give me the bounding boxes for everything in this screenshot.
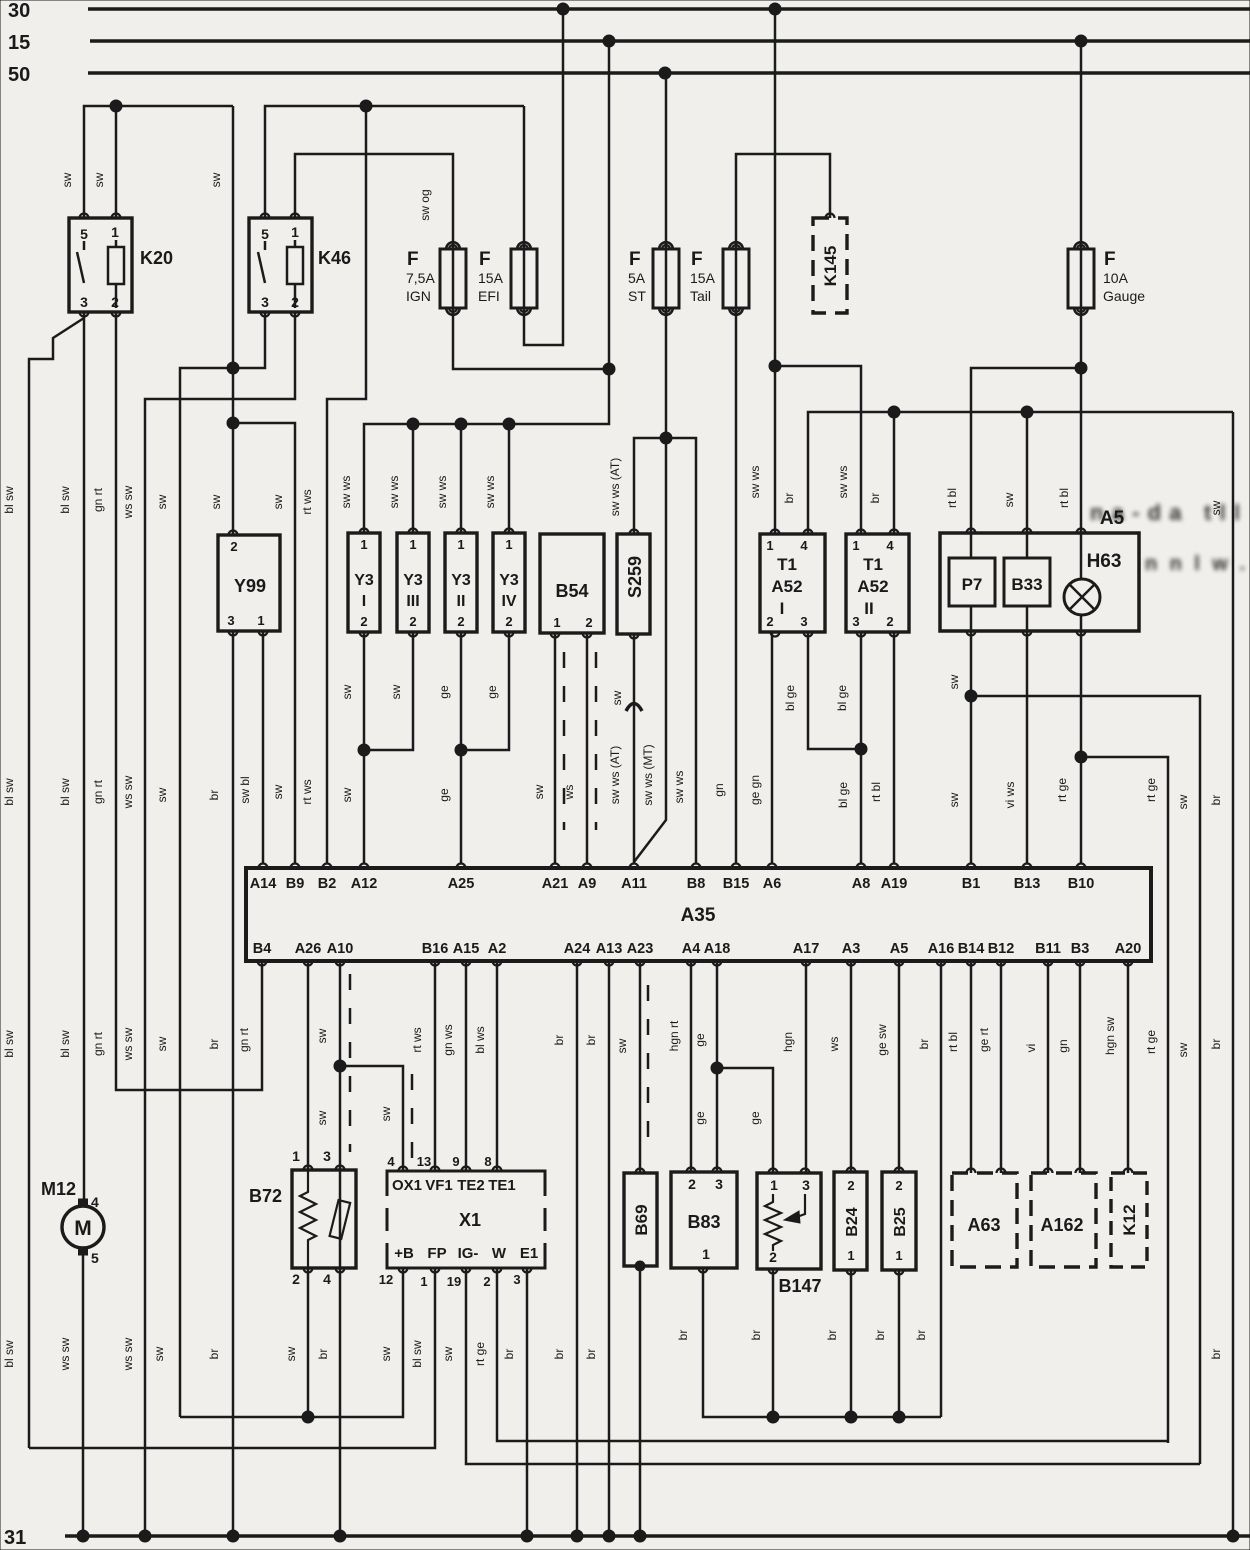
node Y3-IV (503, 418, 515, 430)
svg-text:gn ws: gn ws (441, 1024, 455, 1055)
pin A24 (573, 961, 582, 966)
wire A13 br to 31 (608, 961, 611, 1536)
node Y3-III (407, 418, 419, 430)
svg-text:A21: A21 (542, 876, 569, 892)
wire B3 to A162 (1079, 961, 1082, 1173)
node A8 join (855, 743, 867, 755)
relay K46 (249, 218, 312, 312)
sensor B69 (624, 1173, 657, 1266)
pin A21 (551, 864, 560, 869)
svg-text:OX1: OX1 (392, 1177, 422, 1194)
svg-text:ge sw: ge sw (875, 1024, 889, 1056)
node A25 join (455, 744, 467, 756)
svg-text:ge rt: ge rt (977, 1027, 991, 1052)
wire A15 to TE2 (465, 961, 468, 1171)
node IGN-15 (603, 363, 615, 375)
node T1-II pin4 (888, 406, 900, 418)
svg-text:br: br (207, 790, 221, 801)
svg-text:II: II (864, 599, 873, 618)
node br-31 (1227, 1530, 1239, 1542)
svg-text:br: br (782, 493, 796, 504)
svg-text:2: 2 (505, 614, 512, 629)
svg-text:2: 2 (292, 1271, 300, 1287)
svg-text:ws sw: ws sw (121, 1027, 135, 1061)
relay K145 (813, 218, 847, 313)
svg-text:bl sw: bl sw (2, 486, 16, 514)
pin A5 (895, 961, 904, 966)
svg-text:ge: ge (748, 1111, 762, 1125)
svg-text:5: 5 (91, 1250, 99, 1266)
pin A20 (1124, 961, 1133, 966)
svg-text:br: br (584, 1035, 598, 1046)
svg-text:2: 2 (688, 1176, 696, 1192)
svg-text:sw ws: sw ws (387, 476, 401, 509)
wire T1-II pin4 up (893, 412, 896, 534)
node K20 bus (110, 100, 122, 112)
node B25-1 gnd (893, 1411, 905, 1423)
injector Y3 III (Y3III) (397, 533, 429, 632)
module A162 (1031, 1173, 1096, 1267)
svg-text:ws: ws (562, 785, 576, 801)
svg-text:sw: sw (340, 787, 354, 802)
svg-text:4: 4 (800, 538, 808, 553)
pin A10 (336, 961, 345, 966)
svg-text:A16: A16 (928, 941, 955, 957)
node B147-2 gnd (767, 1411, 779, 1423)
node B72 +B (302, 1411, 314, 1423)
svg-text:2: 2 (847, 1178, 854, 1193)
svg-text:19: 19 (447, 1274, 461, 1289)
svg-text:br: br (1209, 795, 1223, 806)
solenoid Y99 (218, 535, 280, 631)
svg-text:A15: A15 (453, 941, 480, 957)
pin A12 (360, 864, 369, 869)
wiper arrow in B147 (794, 1194, 805, 1218)
svg-text:9: 9 (452, 1154, 459, 1169)
pin A4 (687, 961, 696, 966)
svg-text:B8: B8 (687, 876, 706, 892)
svg-text:1: 1 (457, 537, 464, 552)
svg-text:rt ws: rt ws (300, 779, 314, 804)
node Y3-II (455, 418, 467, 430)
svg-text:A10: A10 (327, 941, 354, 957)
svg-text:15A: 15A (690, 270, 716, 286)
wire H63 to B10 (1080, 631, 1083, 864)
ignition coil T1 A52 I (760, 534, 825, 632)
svg-text:sw ws: sw ws (836, 466, 850, 499)
svg-text:sw: sw (155, 1036, 169, 1051)
svg-text:8: 8 (484, 1154, 491, 1169)
svg-text:3: 3 (80, 294, 88, 310)
wire branch to P7 (971, 368, 1081, 534)
svg-text:1: 1 (420, 1274, 427, 1289)
svg-text:bl sw: bl sw (58, 778, 72, 806)
svg-text:sw: sw (271, 784, 285, 799)
svg-text:IGN: IGN (406, 288, 431, 304)
svg-text:B54: B54 (555, 581, 588, 601)
svg-text:sw: sw (155, 787, 169, 802)
node 15-1081 (1075, 35, 1087, 47)
svg-text:sw: sw (340, 684, 354, 699)
wire A3 to B24 (850, 961, 853, 1172)
wire Y3 IV pin2 join (461, 632, 509, 750)
wire fuse EFI from line 30 (524, 9, 563, 345)
wire branch to B8 (666, 438, 696, 864)
wire K46 pin2 to ws sw (145, 312, 295, 1536)
sensor B24 (834, 1172, 867, 1270)
svg-text:5A: 5A (628, 270, 646, 286)
svg-text:2: 2 (409, 614, 416, 629)
wire Y99 pin3 br to 31 (232, 631, 235, 1536)
svg-text:sw: sw (1002, 492, 1016, 507)
svg-text:W: W (492, 1245, 507, 1262)
wire br bus T1 pin4 (808, 412, 1233, 534)
svg-text:A162: A162 (1040, 1215, 1083, 1235)
svg-text:sw: sw (92, 172, 106, 187)
sensor B25 (882, 1172, 916, 1270)
svg-text:B11: B11 (1035, 941, 1061, 957)
svg-text:K46: K46 (318, 248, 351, 268)
svg-text:F: F (691, 249, 703, 270)
relay K20 (69, 218, 132, 312)
svg-text:2: 2 (895, 1178, 902, 1193)
svg-text:ge: ge (437, 685, 451, 699)
fuse F 7.5A IGN (440, 249, 466, 308)
pin A9 (583, 864, 592, 869)
svg-text:B2: B2 (318, 876, 337, 892)
pin A8 (857, 864, 866, 869)
svg-text:S259: S259 (625, 556, 645, 598)
svg-text:A18: A18 (704, 941, 731, 957)
svg-text:rt ge: rt ge (1144, 1030, 1158, 1054)
svg-text:sw: sw (155, 494, 169, 509)
wire IG- loop (466, 1268, 1200, 1464)
resistor in B147 (765, 1194, 781, 1251)
svg-text:4: 4 (323, 1271, 331, 1287)
svg-text:A4: A4 (682, 941, 701, 957)
svg-text:bl sw: bl sw (2, 1340, 16, 1368)
wire B16 to VF1 (434, 961, 437, 1171)
svg-text:sw: sw (271, 494, 285, 509)
switch S259 (617, 534, 650, 634)
node 50-665 (659, 67, 671, 79)
svg-text:4: 4 (886, 538, 894, 553)
svg-text:gn rt: gn rt (91, 779, 105, 804)
svg-text:3: 3 (800, 614, 807, 629)
svg-text:br: br (868, 493, 882, 504)
pin B15 (732, 864, 741, 869)
wire A17 to B147 pin3 (805, 961, 808, 1173)
svg-text:7,5A: 7,5A (406, 270, 435, 286)
wire B69 to 31 (639, 1266, 642, 1536)
svg-text:sw: sw (947, 792, 961, 807)
pin A2 (493, 961, 502, 966)
svg-text:br: br (502, 1349, 516, 1360)
wire B24 pin1 down (850, 1270, 853, 1417)
svg-text:bl sw: bl sw (58, 486, 72, 514)
svg-text:sw: sw (60, 172, 74, 187)
svg-text:B33: B33 (1011, 575, 1042, 594)
wire K46 top bus from fuse EFI (265, 106, 524, 218)
wire M12 to 31 (82, 1253, 85, 1536)
svg-text:B9: B9 (286, 876, 305, 892)
svg-text:3: 3 (802, 1177, 810, 1193)
svg-text:1: 1 (770, 1177, 778, 1193)
svg-text:gn rt: gn rt (91, 1031, 105, 1056)
wire Y3 III pin2 join (364, 632, 413, 750)
node B24-1 gnd (845, 1411, 857, 1423)
node wssw-31 (139, 1530, 151, 1542)
module K12 (1111, 1173, 1147, 1267)
pin A26 (304, 961, 313, 966)
svg-text:K12: K12 (1120, 1204, 1139, 1235)
svg-text:1: 1 (292, 1148, 300, 1164)
svg-text:B24: B24 (844, 1207, 861, 1236)
wire Y3 II pin2 to A25 (460, 632, 463, 864)
svg-text:A14: A14 (250, 876, 277, 892)
pin A14 (259, 864, 268, 869)
svg-text:sw: sw (315, 1110, 329, 1125)
node K46 bus branch (360, 100, 372, 112)
svg-text:15A: 15A (478, 270, 504, 286)
node Y99-31 (227, 1530, 239, 1542)
wire branch to OX1 (340, 1066, 403, 1171)
wire fuse IGN out (453, 310, 609, 369)
potentiometer B147 (757, 1173, 821, 1269)
pin B12 (997, 961, 1006, 966)
svg-text:ws sw: ws sw (121, 775, 135, 809)
svg-text:Y3: Y3 (499, 572, 519, 589)
wire B25 pin1 down (898, 1270, 901, 1417)
injector Y3 II (Y3II) (445, 533, 477, 632)
svg-text:bl ge: bl ge (835, 685, 849, 711)
node A10 branch (334, 1060, 346, 1072)
dashed wire A10 variant (349, 974, 352, 1152)
svg-text:B69: B69 (632, 1204, 651, 1235)
wire Y3 II top (460, 424, 463, 533)
wire A2 to TE1 (496, 961, 499, 1171)
svg-text:sw: sw (947, 674, 961, 689)
svg-text:A26: A26 (295, 941, 322, 957)
svg-text:rt ge: rt ge (473, 1342, 487, 1366)
svg-text:B10: B10 (1068, 876, 1095, 892)
node A13-31 (603, 1530, 615, 1542)
thermistor in B72 (339, 1170, 342, 1268)
svg-text:2: 2 (457, 614, 464, 629)
wire B33 internal (1026, 534, 1029, 558)
svg-text:1: 1 (111, 224, 119, 240)
wire fuse EFI top (523, 106, 526, 248)
ignition coil T1 A52 II (846, 534, 909, 632)
bus line 15 (90, 39, 1250, 43)
svg-text:2: 2 (230, 539, 237, 554)
wire A24 br to 31 (576, 961, 579, 1536)
svg-text:br: br (316, 1349, 330, 1360)
svg-text:A13: A13 (596, 941, 623, 957)
node A18 branch (711, 1062, 723, 1074)
svg-text:12: 12 (379, 1272, 393, 1287)
svg-text:3: 3 (513, 1272, 520, 1287)
wire B33 drop (1026, 412, 1029, 534)
svg-text:sw: sw (389, 684, 403, 699)
gauge B33 (1004, 558, 1050, 606)
svg-text:1: 1 (505, 537, 512, 552)
svg-text:rt ge: rt ge (1055, 778, 1069, 802)
svg-text:T1: T1 (777, 555, 797, 574)
svg-text:B13: B13 (1014, 876, 1041, 892)
svg-text:15: 15 (8, 32, 30, 54)
svg-text:B15: B15 (723, 876, 750, 892)
bus line 31 (65, 1534, 1250, 1538)
wire B1 to sw column (971, 696, 1200, 1464)
node A24-31 (571, 1530, 583, 1542)
pin B10 (1077, 864, 1086, 869)
svg-text:B12: B12 (988, 941, 1015, 957)
svg-text:3: 3 (323, 1148, 331, 1164)
svg-text:1: 1 (257, 613, 264, 628)
wire +B bus (180, 1268, 403, 1417)
svg-text:3: 3 (715, 1176, 723, 1192)
svg-text:vi ws: vi ws (1003, 782, 1017, 809)
wire S259 to A11 (633, 634, 636, 864)
svg-text:TE2: TE2 (457, 1177, 485, 1194)
svg-text:br: br (207, 1039, 221, 1050)
svg-text:5: 5 (80, 226, 88, 242)
wire branch to S259 (634, 438, 666, 534)
svg-text:br: br (552, 1349, 566, 1360)
wire T1-I pin2 to A6 (771, 632, 774, 864)
wire K20 pin2 gn rt to B4 (116, 312, 262, 1090)
wire A4 to B83 pin2 (690, 961, 693, 1172)
svg-text:A3: A3 (842, 941, 861, 957)
svg-text:sw: sw (209, 172, 223, 187)
svg-text:A52: A52 (771, 577, 802, 596)
svg-text:sw ws (AT): sw ws (AT) (608, 746, 622, 804)
pin B14 (967, 961, 976, 966)
dashed wire AT variant 1 (563, 652, 566, 830)
svg-text:3: 3 (261, 294, 269, 310)
svg-text:B3: B3 (1071, 941, 1090, 957)
svg-text:br: br (207, 1349, 221, 1360)
svg-text:br: br (1209, 1349, 1223, 1360)
svg-text:Gauge: Gauge (1103, 288, 1145, 304)
svg-text:K145: K145 (821, 246, 840, 287)
svg-text:sw: sw (610, 690, 624, 705)
svg-text:br: br (914, 1330, 928, 1341)
wire B72 pin2 down (307, 1268, 310, 1417)
svg-text:A23: A23 (627, 941, 654, 957)
svg-text:sw ws: sw ws (339, 476, 353, 509)
node Y99 tap (227, 417, 239, 429)
wire Y99 drop (232, 368, 235, 535)
svg-text:10A: 10A (1103, 270, 1129, 286)
svg-text:A12: A12 (351, 876, 378, 892)
pin A19 (890, 864, 899, 869)
svg-text:sw: sw (152, 1346, 166, 1361)
svg-text:K20: K20 (140, 248, 173, 268)
svg-text:B25: B25 (892, 1207, 909, 1236)
svg-text:B14: B14 (958, 941, 985, 957)
svg-text:T1: T1 (863, 555, 883, 574)
svg-text:ws sw: ws sw (58, 1337, 72, 1371)
svg-text:B16: B16 (422, 941, 449, 957)
dashed wire AT variant 2 (595, 652, 598, 830)
svg-text:sw bl: sw bl (238, 776, 252, 803)
svg-text:sw: sw (284, 1346, 298, 1361)
svg-text:ws sw: ws sw (121, 485, 135, 519)
connector X1 (387, 1171, 545, 1196)
svg-text:hgn rt: hgn rt (667, 1020, 681, 1051)
module A63 (952, 1173, 1017, 1267)
svg-text:III: III (406, 593, 419, 610)
svg-text:B147: B147 (778, 1276, 821, 1296)
wire P7 to B1 (970, 631, 973, 864)
svg-text:sw ws: sw ws (483, 476, 497, 509)
sensor B83 (671, 1172, 737, 1268)
svg-text:F: F (629, 249, 641, 270)
svg-text:2: 2 (585, 615, 592, 630)
pin A23 (636, 961, 645, 966)
svg-text:sw: sw (1176, 794, 1190, 809)
svg-text:ge: ge (485, 685, 499, 699)
dashed wire A23 variant (647, 985, 650, 1140)
node K46out-Y99 (227, 362, 239, 374)
svg-text:F: F (407, 249, 419, 270)
fuse F 5A ST (653, 249, 679, 308)
svg-text:1: 1 (360, 537, 367, 552)
svg-text:P7: P7 (962, 575, 983, 594)
svg-text:1: 1 (553, 615, 560, 630)
svg-text:I: I (780, 599, 785, 618)
pin A17 (802, 961, 811, 966)
motor M12 (62, 1206, 104, 1248)
svg-text:A2: A2 (488, 941, 507, 957)
fuse F 15A EFI (511, 249, 537, 308)
node 30-563 (557, 3, 569, 15)
node B69 bottom (635, 1261, 645, 1271)
svg-text:A17: A17 (793, 941, 820, 957)
svg-text:EFI: EFI (478, 288, 500, 304)
svg-text:ge: ge (693, 1111, 707, 1125)
sensor B72 (292, 1170, 356, 1268)
svg-text:gn rt: gn rt (91, 487, 105, 512)
svg-text:3: 3 (852, 614, 859, 629)
pin A11 (630, 864, 639, 869)
dashed wire OX1 variant (411, 1074, 414, 1166)
pin B4 (258, 961, 267, 966)
node 15-609 (603, 35, 615, 47)
svg-text:TE1: TE1 (488, 1177, 516, 1194)
wire branch to B2 jog (327, 106, 366, 864)
svg-text:sw ws: sw ws (435, 476, 449, 509)
svg-text:rt bl: rt bl (946, 1032, 960, 1052)
wire A23 to B69 (639, 961, 642, 1173)
wire FP to bl sw (29, 1268, 435, 1448)
bus line 30 (88, 7, 1250, 11)
svg-text:ge gn: ge gn (748, 775, 762, 805)
svg-text:bl ge: bl ge (783, 685, 797, 711)
svg-text:hgn: hgn (781, 1032, 795, 1052)
pin A16 (937, 961, 946, 966)
svg-text:bl sw: bl sw (58, 1030, 72, 1058)
svg-text:2: 2 (360, 614, 367, 629)
node B72-31 (334, 1530, 346, 1542)
svg-text:1: 1 (895, 1248, 902, 1263)
wire Y3 IV top (508, 424, 511, 533)
svg-text:30: 30 (8, 0, 30, 22)
svg-text:II: II (457, 593, 466, 610)
svg-text:A9: A9 (578, 876, 597, 892)
